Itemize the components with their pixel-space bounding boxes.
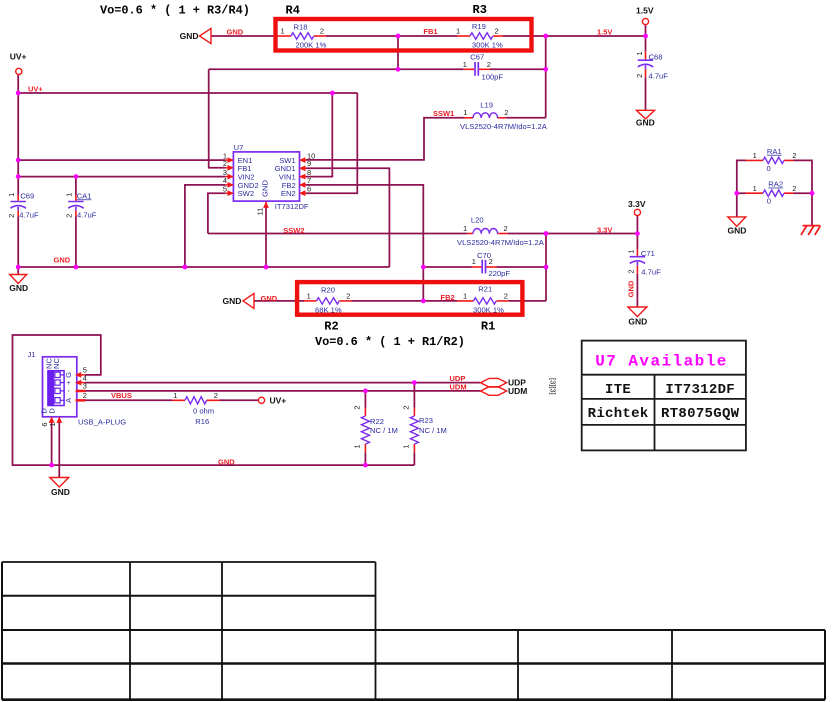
- svg-text:SSW2: SSW2: [283, 226, 304, 235]
- wire C67 left line to FB1 vertical: [209, 68, 464, 70]
- svg-text:D: D: [47, 408, 56, 414]
- inductor L19: [473, 113, 498, 118]
- wire R18 pin2 to FB1 node: [326, 35, 457, 37]
- wire CA1 bottom to GND rail: [75, 217, 77, 268]
- pin stub L19 pin1: [464, 117, 473, 119]
- svg-text:3.3V: 3.3V: [628, 199, 646, 209]
- svg-text:RA2: RA2: [768, 180, 783, 189]
- svg-text:Richtek: Richtek: [588, 406, 649, 422]
- svg-text:300K 1%: 300K 1%: [473, 306, 504, 315]
- capacitor C68 plates: [638, 60, 653, 69]
- wire CA1 top to VIN2 row: [75, 177, 77, 195]
- svg-text:220pF: 220pF: [489, 269, 511, 278]
- svg-text:100pF: 100pF: [482, 73, 504, 82]
- pin stub R21 pin1: [457, 300, 474, 302]
- svg-text:GND: GND: [180, 31, 199, 41]
- svg-text:R1: R1: [481, 319, 495, 333]
- wire GND arrow to R18 pin1: [211, 35, 278, 37]
- svg-text:2: 2: [495, 27, 499, 36]
- capacitor CA1 plates: [68, 202, 83, 211]
- svg-text:200K 1%: 200K 1%: [296, 41, 327, 50]
- pin arrow U7 pin11: [263, 202, 269, 208]
- junction FB2 divider node: [421, 299, 426, 304]
- wire R19 pin2 to 1.5V port: [503, 25, 646, 36]
- pin stub RA2 pins: [746, 192, 794, 194]
- svg-text:[3]: [3]: [549, 378, 558, 386]
- wire J1 pin1 down to GND symbol: [58, 422, 60, 478]
- wire FB1 vertical and into U7 pin2: [209, 69, 226, 168]
- pin stub U7 pin4: [225, 184, 233, 186]
- svg-text:R18: R18: [294, 22, 308, 31]
- pin stub U7 pin6: [300, 192, 306, 194]
- svg-text:L19: L19: [480, 101, 493, 110]
- svg-text:2: 2: [223, 159, 227, 168]
- svg-text:68K 1%: 68K 1%: [315, 306, 342, 315]
- junction RA2 right: [810, 191, 815, 196]
- wire RA1 row with verticals to GND and chassis: [737, 160, 812, 225]
- power arrow GND at R2 row: [243, 293, 254, 308]
- svg-text:R23: R23: [419, 416, 433, 425]
- wire node A vertical R18/R19 junction down to C67 line: [397, 36, 399, 69]
- resistor RA1: [763, 157, 784, 163]
- svg-text:G: G: [64, 372, 73, 378]
- svg-text:NC: NC: [52, 358, 61, 369]
- junction C67 right: [543, 67, 548, 72]
- pin arrow U7 pin7: [299, 182, 305, 188]
- wire J1 outer box top and left and GND bottom line: [13, 335, 415, 465]
- wire R16 pin2 to UV+ terminal: [219, 399, 258, 401]
- svg-text:SW2: SW2: [238, 189, 254, 198]
- pin stub L20 pin1: [468, 233, 473, 235]
- svg-text:SSW1: SSW1: [433, 109, 454, 118]
- svg-text:R21: R21: [478, 284, 492, 293]
- wire SSW2 row to L20 input: [208, 233, 468, 235]
- ground symbol below J1: [50, 478, 69, 488]
- wire SSW1 L19 input left and down to SW1: [306, 118, 464, 160]
- pin arrow J1 pin4: [75, 380, 81, 386]
- wire C70 line left from FB2 vertical: [423, 266, 471, 268]
- svg-text:2: 2: [65, 214, 74, 218]
- resistor R19: [470, 33, 493, 39]
- svg-text:2: 2: [214, 391, 218, 400]
- capacitor C71 plates: [630, 257, 645, 266]
- junction R22 bottom GND line: [363, 463, 368, 468]
- svg-text:GND: GND: [54, 256, 71, 265]
- pin stub U7 pin10: [300, 159, 306, 161]
- svg-text:1: 1: [7, 193, 16, 197]
- pin stub R20 pin2: [340, 300, 352, 302]
- offpage connector UDM: [481, 387, 507, 396]
- resistor RA2: [763, 190, 784, 196]
- svg-text:1: 1: [463, 224, 467, 233]
- wire VIN1 pin8 up to UV+ rail: [306, 93, 332, 177]
- pin arrow J1 pin6: [49, 417, 55, 423]
- svg-text:J1: J1: [28, 350, 36, 359]
- svg-text:UV+: UV+: [10, 52, 27, 62]
- junction 3.3V node: [635, 231, 640, 236]
- svg-text:UV+: UV+: [28, 85, 43, 94]
- pin stub L19 pin2: [498, 117, 507, 119]
- pin arrow U7 pin4: [228, 182, 234, 188]
- resistor R22 vertical: [361, 416, 369, 444]
- pin stub U7 pin5: [225, 192, 233, 194]
- svg-text:GND: GND: [227, 28, 244, 37]
- junction pin11 rail: [264, 265, 269, 270]
- pin stub R16 pins: [172, 399, 219, 401]
- junction UDM row R22: [363, 389, 368, 394]
- svg-text:R3: R3: [473, 3, 487, 17]
- svg-text:1: 1: [472, 257, 476, 266]
- pin stub U7 pin3: [225, 176, 233, 178]
- svg-text:1: 1: [456, 27, 460, 36]
- wire SW2 pin5 down to SSW2: [208, 193, 226, 233]
- pin stub C68 pin2: [645, 69, 647, 77]
- pin stub RA1 pins: [746, 159, 794, 161]
- svg-text:C71: C71: [641, 249, 655, 258]
- svg-text:+: +: [64, 380, 73, 385]
- svg-text:2: 2: [504, 292, 508, 301]
- svg-text:R16: R16: [195, 417, 209, 426]
- svg-text:2: 2: [792, 151, 796, 160]
- svg-text:1: 1: [402, 444, 411, 448]
- svg-text:9: 9: [307, 159, 311, 168]
- svg-text:0: 0: [767, 164, 771, 173]
- wire 1.5V port down to C68: [645, 36, 647, 51]
- ground symbol below C71: [628, 307, 647, 317]
- svg-text:GND: GND: [51, 487, 70, 497]
- pin arrow U7 pin9: [299, 165, 305, 171]
- svg-text:GND: GND: [261, 294, 278, 303]
- svg-text:1: 1: [281, 27, 285, 36]
- svg-text:GND: GND: [223, 296, 242, 306]
- wire L20 output to 3.3V port: [507, 216, 637, 234]
- svg-text:VLS2520-4R7M/Ido=1.2A: VLS2520-4R7M/Ido=1.2A: [457, 238, 545, 247]
- svg-text:GND: GND: [218, 457, 235, 466]
- pin stub C67 pin2: [479, 68, 490, 70]
- svg-text:1: 1: [635, 51, 644, 55]
- junction VIN2 row: [16, 174, 21, 179]
- svg-text:1: 1: [307, 292, 311, 301]
- svg-text:ITE: ITE: [605, 382, 631, 398]
- svg-text:2: 2: [792, 184, 796, 193]
- svg-text:C69: C69: [20, 191, 34, 200]
- pin stub J1 pin2 thick: [77, 399, 84, 402]
- wire J1 pin6 down to GND line: [51, 422, 53, 466]
- svg-text:FB2: FB2: [441, 293, 455, 302]
- svg-text:[3]: [3]: [548, 386, 557, 394]
- svg-text:2: 2: [402, 405, 411, 409]
- wire UV+ rail horizontal: [18, 92, 357, 94]
- offpage connector UDP: [481, 378, 507, 387]
- svg-text:1: 1: [48, 422, 57, 426]
- svg-text:UDM: UDM: [508, 386, 527, 396]
- wire 1.5V vertical to L19 output: [545, 36, 547, 118]
- pin arrow J1 pin1: [56, 417, 62, 423]
- wire R20 pin2 to FB2 node: [352, 300, 458, 302]
- svg-text:300K 1%: 300K 1%: [472, 41, 503, 50]
- svg-text:2: 2: [504, 224, 508, 233]
- svg-text:RA1: RA1: [767, 147, 782, 156]
- junction VIN1 on UV+ rail: [330, 91, 335, 96]
- red highlight box R2 R1: [297, 282, 522, 315]
- pin stub R22 pins: [364, 408, 366, 453]
- wire UDP row pin4 to offpage: [85, 382, 481, 384]
- junction J1 pin6 GND line: [49, 463, 54, 468]
- ground symbol below C68: [636, 110, 654, 119]
- svg-text:4.7uF: 4.7uF: [19, 211, 39, 220]
- pin stub R19 pin1: [457, 35, 470, 37]
- pin stub R18 pin1: [278, 35, 291, 37]
- pin stub R18 pin2: [314, 35, 326, 37]
- pin stub C70 pin1: [472, 266, 482, 268]
- capacitor C67 plates: [475, 62, 478, 76]
- svg-text:Vo=0.6 * ( 1 + R3/R4): Vo=0.6 * ( 1 + R3/R4): [100, 3, 250, 17]
- wire FB2 pin7 right and down to FB2 node: [306, 185, 423, 301]
- pin stub J1 pin3 thick: [77, 390, 84, 393]
- svg-text:4.7uF: 4.7uF: [641, 268, 661, 277]
- svg-text:VBUS: VBUS: [111, 391, 132, 400]
- wire GND arrow to R20 pin1: [254, 300, 304, 302]
- junction left rail GND: [16, 265, 21, 270]
- wire VIN2 row from UV+ rail: [18, 176, 225, 178]
- pin stub J1 pin2: [77, 399, 85, 401]
- junction UDP row R23: [412, 380, 417, 385]
- svg-text:1.5V: 1.5V: [597, 28, 612, 37]
- red highlight box R4 R3: [276, 19, 532, 51]
- junction CA1 bottom GND: [74, 265, 79, 270]
- svg-text:4.7uF: 4.7uF: [649, 72, 669, 81]
- pin arrow J1 pin5: [75, 372, 81, 378]
- svg-text:2: 2: [7, 214, 16, 218]
- wire 3.3V down to C71: [636, 234, 638, 250]
- svg-text:UV+: UV+: [270, 396, 287, 406]
- pin arrow U7 pin2: [228, 165, 234, 171]
- svg-text:GND: GND: [628, 317, 647, 327]
- svg-text:Vo=0.6 * ( 1 + R1/R2): Vo=0.6 * ( 1 + R1/R2): [315, 335, 465, 349]
- svg-text:0 ohm: 0 ohm: [193, 406, 214, 415]
- inductor L20: [473, 228, 498, 233]
- pin stub C71 pins: [636, 249, 638, 273]
- wire UDM row pin3 to offpage: [85, 390, 481, 392]
- wire VBUS row pin2 to R16: [85, 399, 172, 401]
- resistor R21: [474, 298, 497, 304]
- svg-text:1: 1: [463, 292, 467, 301]
- pin stub C68 pin1: [645, 51, 647, 59]
- svg-text:NC / 1M: NC / 1M: [370, 426, 398, 435]
- wire GND2 pin4 left and down to GND rail: [185, 185, 226, 267]
- svg-text:2: 2: [353, 405, 362, 409]
- pin stub J1 pin6: [51, 417, 53, 422]
- svg-text:1: 1: [463, 108, 467, 117]
- svg-text:GND: GND: [260, 180, 269, 197]
- svg-text:11: 11: [255, 208, 264, 216]
- wire C67 right to 1.5V vertical: [490, 68, 546, 70]
- pin arrow U7 pin10: [299, 157, 305, 163]
- pin arrow U7 pin1: [228, 157, 234, 163]
- svg-text:U7: U7: [234, 143, 244, 152]
- svg-text:C67: C67: [470, 53, 484, 62]
- svg-text:2: 2: [504, 108, 508, 117]
- svg-text:1: 1: [173, 391, 177, 400]
- wire R21 pin2 to output vertical: [509, 300, 547, 302]
- svg-text:1: 1: [753, 151, 757, 160]
- pin stub U7 pin9: [300, 167, 306, 169]
- pin arrow U7 pin3: [228, 174, 234, 180]
- wire C70 right to R21 vertical: [497, 266, 547, 268]
- wire C71 bottom to GND symbol: [636, 274, 638, 307]
- svg-text:5: 5: [223, 184, 227, 193]
- svg-text:CA1: CA1: [77, 191, 92, 200]
- svg-text:U7 Available: U7 Available: [595, 353, 728, 371]
- junction UV+ rail top: [16, 91, 21, 96]
- capacitor C69 plates: [11, 202, 26, 211]
- pin stub L20 pin2: [498, 233, 508, 235]
- svg-text:R2: R2: [324, 319, 338, 333]
- pin stub U7 pin11: [265, 201, 267, 206]
- junction FB1 node on R4 row: [396, 34, 401, 39]
- svg-text:R20: R20: [321, 285, 335, 294]
- wire RA2 row: [737, 192, 812, 194]
- bottom empty table: [2, 562, 825, 700]
- pin stub C69 pins: [17, 195, 19, 217]
- table U7 Available: [582, 341, 746, 451]
- wire GND rail horizontal: [18, 266, 389, 268]
- svg-text:1: 1: [627, 249, 636, 253]
- ground symbol at left rail: [10, 275, 27, 284]
- connector J1 USB_A-PLUG body: [43, 357, 77, 417]
- svg-text:L20: L20: [471, 216, 484, 225]
- junction 1.5V port tee: [643, 34, 648, 39]
- junction 1.5V node: [543, 34, 548, 39]
- pin stub R20 pin1: [304, 300, 317, 302]
- wire U7 pin11 down to GND rail: [265, 206, 267, 267]
- pin stub J1 pin5: [77, 374, 85, 376]
- wire L19 output to vertical: [507, 117, 546, 119]
- svg-text:VLS2520-4R7M/Ido=1.2A: VLS2520-4R7M/Ido=1.2A: [460, 122, 548, 131]
- svg-text:NC / 1M: NC / 1M: [419, 426, 447, 435]
- wire GND1 pin9 right and down to GND rail: [306, 168, 389, 267]
- ground symbol below RA left: [728, 217, 746, 227]
- junction C67 left: [396, 67, 401, 72]
- svg-text:UDM: UDM: [450, 383, 467, 392]
- svg-text:EN2: EN2: [281, 189, 296, 198]
- svg-text:2: 2: [320, 27, 324, 36]
- svg-text:1: 1: [463, 60, 467, 69]
- pin stub J1 pin3: [77, 390, 85, 392]
- pin stub R23 pins: [413, 408, 415, 453]
- pin stub CA1 pins: [75, 195, 77, 217]
- power circle UV+ at R16: [258, 397, 264, 403]
- svg-text:3.3V: 3.3V: [597, 225, 612, 234]
- svg-text:2: 2: [83, 391, 87, 400]
- wire EN1 row from UV+ rail: [18, 159, 225, 161]
- resistor R20: [317, 298, 340, 304]
- svg-text:4.7uF: 4.7uF: [77, 211, 97, 220]
- svg-text:2: 2: [489, 257, 493, 266]
- svg-text:1: 1: [65, 193, 74, 197]
- resistor R18: [291, 33, 314, 39]
- pin stub J1 pin1: [58, 417, 60, 422]
- op-amp U7 IC body: [233, 152, 299, 201]
- junction GND2 rail: [183, 265, 188, 270]
- junction EN1 row: [16, 158, 21, 163]
- power circle UV+: [16, 68, 22, 74]
- svg-text:C68: C68: [649, 53, 663, 62]
- junction CA1 top: [74, 174, 79, 179]
- svg-text:2: 2: [627, 269, 636, 273]
- svg-text:R4: R4: [286, 4, 300, 18]
- pin arrow U7 pin8: [299, 174, 305, 180]
- junction L20 output: [544, 231, 549, 236]
- wire R23 vertical from UDP row: [413, 383, 415, 466]
- wire R22 vertical from UDM row: [364, 391, 366, 465]
- pin stub U7 pin8: [300, 176, 306, 178]
- resistor R16: [185, 397, 207, 404]
- pin stub U7 pin7: [300, 184, 306, 186]
- pin stub C67 pin1: [464, 68, 475, 70]
- pin arrow U7 pin6: [299, 190, 305, 196]
- svg-text:3: 3: [83, 382, 87, 391]
- pin stub R21 pin2: [497, 300, 509, 302]
- svg-text:GND: GND: [636, 118, 655, 128]
- wire R21 output up to C70 and L20 nodes: [545, 234, 547, 301]
- pin arrow U7 pin5: [228, 190, 234, 196]
- svg-text:0: 0: [767, 197, 771, 206]
- wire UV+ left rail above C69: [17, 75, 19, 195]
- power circle 3.3V: [634, 209, 640, 215]
- svg-text:GND: GND: [728, 226, 747, 236]
- pin stub J1 pin4: [77, 382, 85, 384]
- wire EN2 pin6 up to UV+ rail end: [306, 93, 357, 193]
- svg-text:1.5V: 1.5V: [636, 6, 654, 16]
- junction RA2 left: [734, 191, 739, 196]
- svg-text:R19: R19: [472, 22, 486, 31]
- junction C70 right: [544, 265, 549, 270]
- chassis ground symbol: [801, 226, 820, 235]
- svg-text:1: 1: [353, 444, 362, 448]
- capacitor C70 plates: [482, 260, 485, 274]
- svg-text:2: 2: [635, 74, 644, 78]
- svg-text:GND: GND: [9, 283, 28, 293]
- pin stub U7 pin1: [225, 159, 233, 161]
- svg-text:2: 2: [487, 60, 491, 69]
- junction C70 left FB2: [421, 265, 426, 270]
- resistor R23 vertical: [410, 416, 418, 444]
- wire left rail below C69 to GND rail and stub to GND symbol: [17, 217, 19, 276]
- svg-text:USB_A-PLUG: USB_A-PLUG: [78, 418, 126, 427]
- svg-text:1: 1: [753, 184, 757, 193]
- svg-text:6: 6: [307, 184, 311, 193]
- svg-text:RT8075GQW: RT8075GQW: [661, 406, 740, 422]
- wire C68 bottom to GND symbol: [645, 77, 647, 110]
- svg-text:FB1: FB1: [423, 27, 437, 36]
- pin stub U7 pin2: [225, 167, 233, 169]
- svg-text:IT7312DF: IT7312DF: [275, 202, 309, 211]
- svg-text:2: 2: [346, 292, 350, 301]
- power arrow GND at R4 row: [200, 28, 212, 43]
- svg-text:GND: GND: [627, 280, 636, 297]
- svg-text:IT7312DF: IT7312DF: [665, 382, 735, 398]
- power circle 1.5V: [642, 18, 648, 24]
- pin stub R19 pin2: [493, 35, 503, 37]
- pin stub C70 pin2: [486, 266, 496, 268]
